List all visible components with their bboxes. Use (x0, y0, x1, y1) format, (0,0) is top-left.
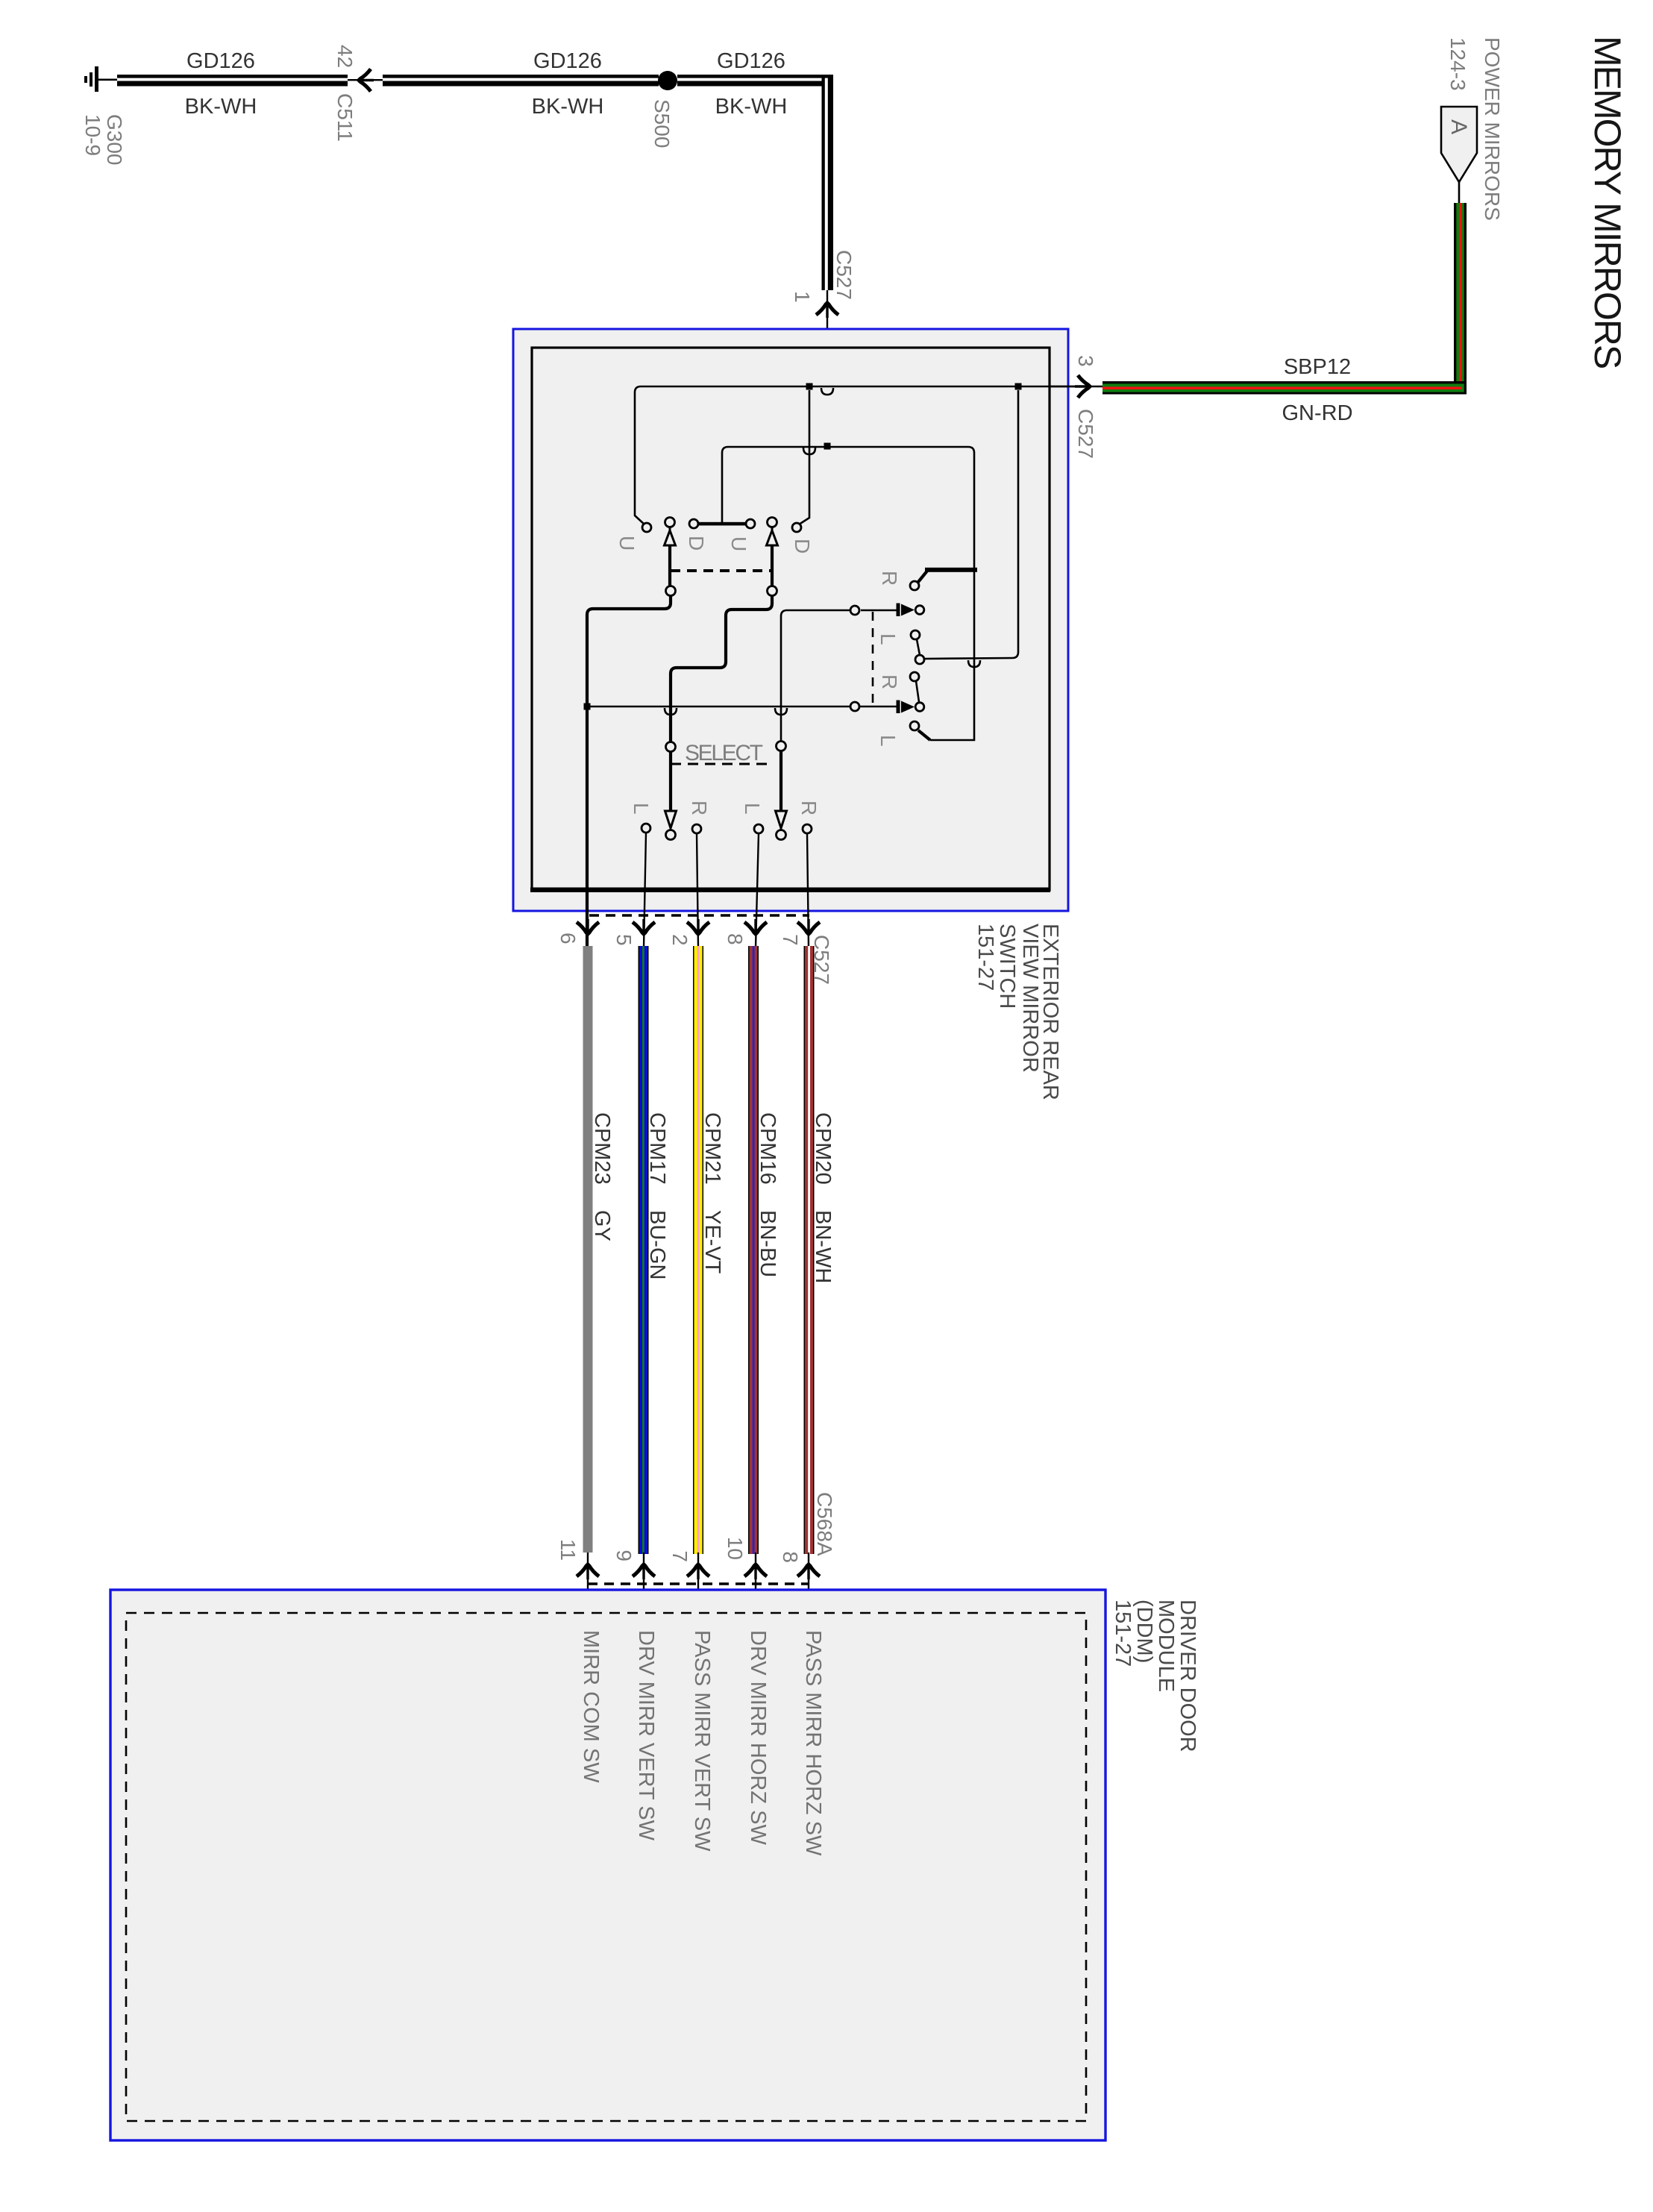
svg-text:GN-RD: GN-RD (1282, 401, 1352, 425)
svg-text:C527: C527 (832, 250, 856, 300)
svg-text:GD126: GD126 (717, 49, 785, 73)
svg-text:MODULE: MODULE (1154, 1600, 1178, 1692)
svg-text:BN-BU: BN-BU (756, 1210, 780, 1277)
svg-text:42: 42 (333, 45, 357, 68)
svg-text:U: U (615, 536, 639, 551)
svg-text:2: 2 (668, 934, 691, 946)
svg-text:R: R (797, 800, 821, 815)
svg-text:D: D (685, 536, 708, 551)
svg-text:10: 10 (724, 1537, 747, 1560)
svg-text:C511: C511 (333, 93, 357, 142)
svg-text:L: L (876, 735, 900, 747)
svg-text:YE-VT: YE-VT (700, 1210, 724, 1274)
svg-text:BK-WH: BK-WH (185, 95, 257, 119)
svg-text:BK-WH: BK-WH (532, 95, 604, 119)
svg-text:GD126: GD126 (186, 49, 255, 73)
svg-text:151-27: 151-27 (973, 924, 997, 991)
svg-text:BN-WH: BN-WH (811, 1210, 835, 1283)
svg-text:CPM20: CPM20 (811, 1112, 835, 1185)
svg-text:SWITCH: SWITCH (995, 924, 1019, 1009)
svg-text:1: 1 (791, 291, 814, 303)
svg-text:GY: GY (590, 1210, 614, 1241)
svg-text:R: R (878, 674, 901, 689)
svg-text:L: L (876, 633, 900, 645)
svg-text:C568A: C568A (813, 1492, 836, 1556)
svg-text:POWER MIRRORS: POWER MIRRORS (1481, 37, 1504, 221)
svg-text:3: 3 (1074, 355, 1097, 367)
svg-text:DRIVER DOOR: DRIVER DOOR (1176, 1600, 1199, 1752)
svg-text:6: 6 (556, 933, 580, 944)
svg-text:7: 7 (779, 934, 802, 946)
svg-text:G300: G300 (103, 114, 126, 166)
svg-text:MEMORY MIRRORS: MEMORY MIRRORS (1587, 36, 1628, 369)
svg-text:10-9: 10-9 (81, 114, 104, 156)
svg-text:L: L (630, 803, 653, 815)
svg-text:R: R (688, 800, 711, 815)
svg-text:BK-WH: BK-WH (715, 95, 788, 119)
svg-text:C527: C527 (1074, 409, 1097, 459)
svg-text:DRV MIRR HORZ SW: DRV MIRR HORZ SW (746, 1630, 770, 1845)
svg-text:CPM23: CPM23 (590, 1112, 614, 1185)
svg-text:151-27: 151-27 (1111, 1600, 1135, 1667)
svg-text:DRV MIRR VERT SW: DRV MIRR VERT SW (634, 1630, 658, 1841)
svg-text:PASS MIRR VERT SW: PASS MIRR VERT SW (690, 1630, 714, 1852)
svg-text:GD126: GD126 (533, 49, 602, 73)
svg-text:R: R (878, 571, 901, 586)
svg-text:MIRR COM SW: MIRR COM SW (579, 1630, 603, 1783)
svg-text:CPM17: CPM17 (645, 1112, 669, 1185)
svg-text:124-3: 124-3 (1446, 37, 1469, 91)
svg-text:VIEW MIRROR: VIEW MIRROR (1018, 924, 1042, 1073)
svg-text:11: 11 (556, 1539, 580, 1561)
svg-text:(DDM): (DDM) (1132, 1600, 1156, 1663)
svg-text:SBP12: SBP12 (1284, 355, 1351, 379)
svg-text:D: D (791, 539, 814, 554)
svg-text:8: 8 (724, 933, 747, 945)
svg-text:A: A (1446, 119, 1471, 134)
svg-text:CPM21: CPM21 (700, 1112, 724, 1185)
svg-text:9: 9 (612, 1550, 636, 1561)
svg-text:PASS MIRR HORZ SW: PASS MIRR HORZ SW (801, 1630, 825, 1856)
svg-text:U: U (727, 536, 750, 551)
svg-text:8: 8 (779, 1551, 802, 1563)
svg-text:5: 5 (612, 934, 636, 946)
svg-text:BU-GN: BU-GN (645, 1210, 669, 1279)
svg-text:L: L (741, 803, 764, 815)
svg-text:SELECT: SELECT (685, 741, 763, 765)
svg-text:7: 7 (668, 1550, 691, 1562)
svg-text:S500: S500 (650, 99, 674, 148)
svg-text:CPM16: CPM16 (756, 1112, 780, 1185)
